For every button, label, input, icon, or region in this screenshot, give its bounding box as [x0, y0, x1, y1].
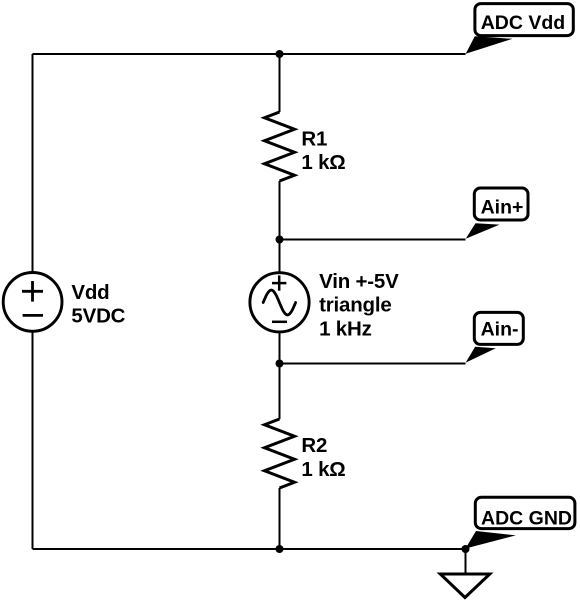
svg-text:Vin +-5V: Vin +-5V — [319, 270, 399, 293]
svg-text:Vdd: Vdd — [71, 281, 109, 304]
svg-text:1 kHz: 1 kHz — [319, 317, 372, 340]
svg-text:triangle: triangle — [319, 294, 391, 317]
svg-text:Ain+: Ain+ — [481, 196, 524, 218]
svg-text:ADC Vdd: ADC Vdd — [481, 12, 566, 34]
svg-text:Ain-: Ain- — [481, 319, 519, 341]
svg-text:R2: R2 — [301, 434, 327, 457]
svg-text:5VDC: 5VDC — [71, 305, 125, 328]
svg-text:1 kΩ: 1 kΩ — [301, 151, 345, 174]
svg-text:1 kΩ: 1 kΩ — [301, 458, 345, 481]
svg-text:R1: R1 — [301, 127, 327, 150]
svg-text:ADC GND: ADC GND — [481, 507, 572, 529]
